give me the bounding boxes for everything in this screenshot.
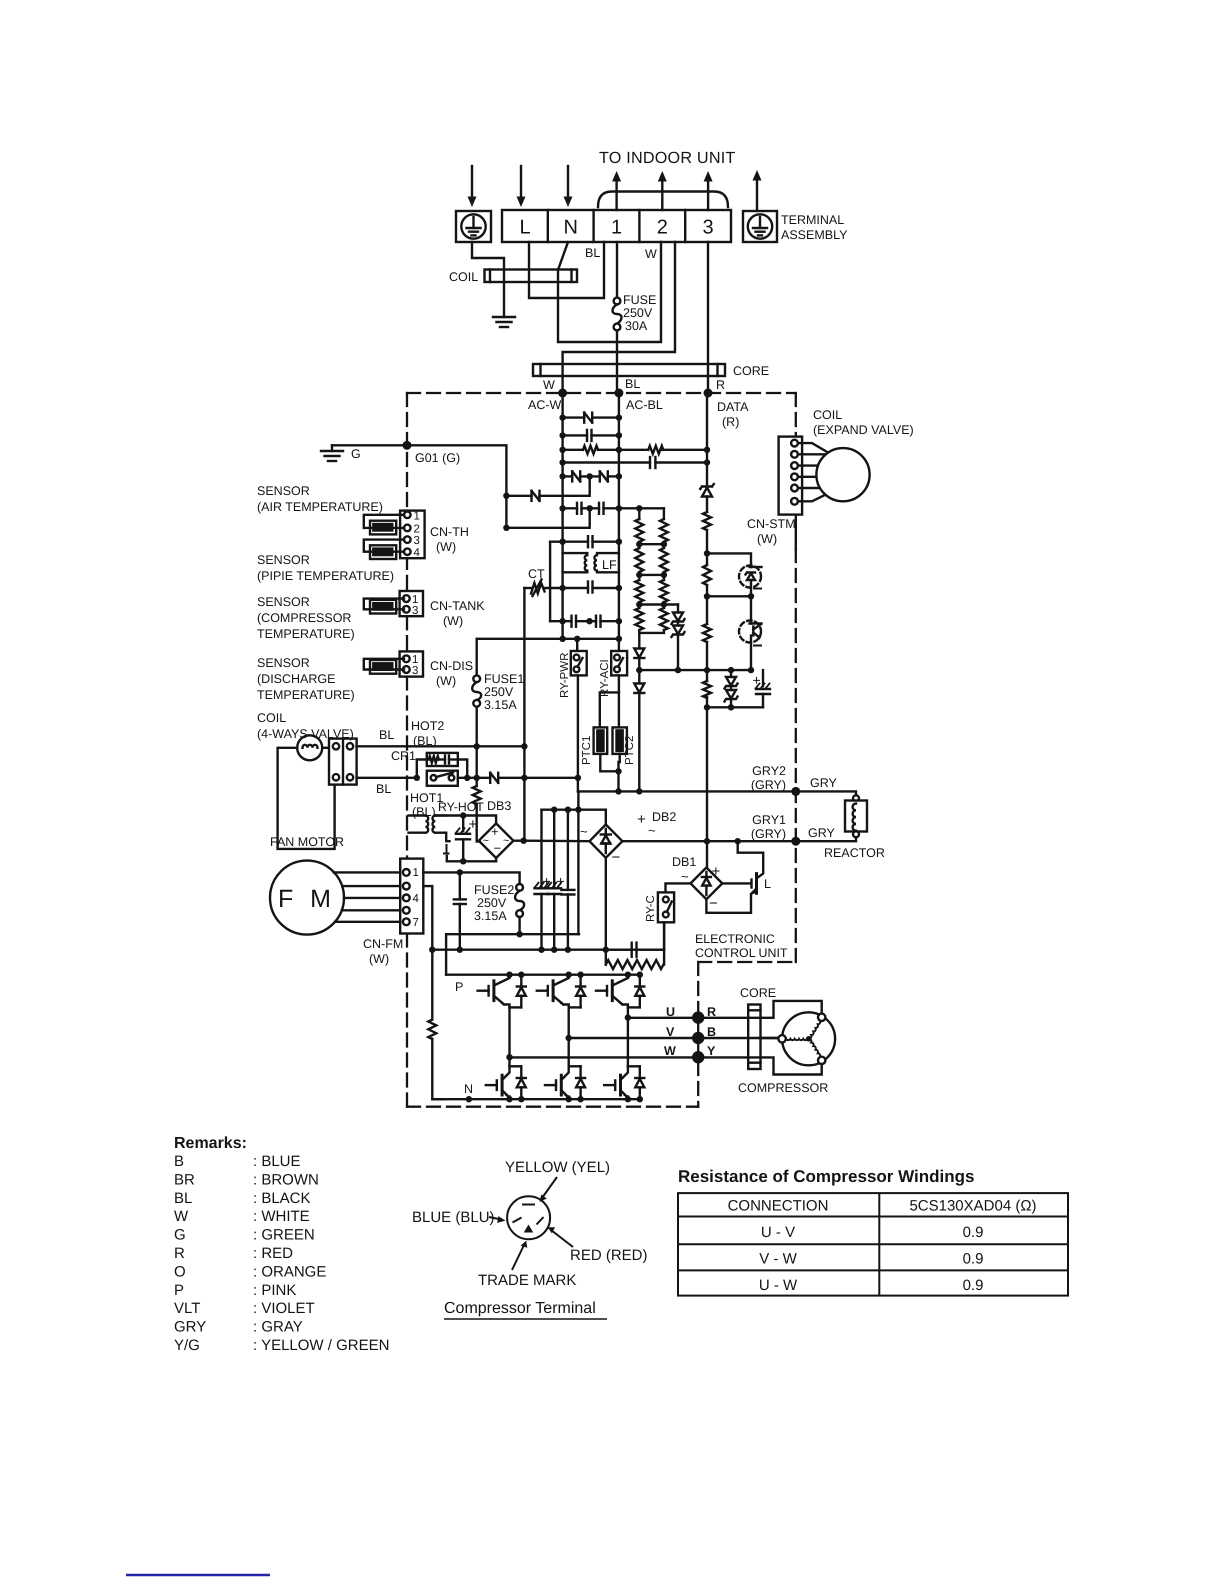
ladder rungs xyxy=(639,543,664,545)
svg-text:−: − xyxy=(494,841,502,856)
svg-text:CN-STM: CN-STM xyxy=(747,517,796,531)
diode upper 1 xyxy=(510,975,526,1008)
svg-text:(AIR TEMPERATURE): (AIR TEMPERATURE) xyxy=(257,500,383,514)
svg-text:SENSOR: SENSOR xyxy=(257,595,310,609)
row double capacitor below CT xyxy=(550,616,619,627)
svg-text:: ORANGE: : ORANGE xyxy=(253,1263,326,1280)
svg-text:GRY: GRY xyxy=(174,1319,206,1336)
reactor xyxy=(796,791,867,841)
electrolytic capacitor DB3 xyxy=(456,816,471,862)
fuse 250V 30A on wire 1 xyxy=(613,242,622,393)
svg-text:7: 7 xyxy=(413,917,419,929)
electrolytic capacitor bank 2 xyxy=(547,810,561,950)
phase column U xyxy=(627,1007,629,1066)
fuse FUSE1 column xyxy=(472,639,481,778)
CT current transformer xyxy=(524,580,588,597)
svg-text:TEMPERATURE): TEMPERATURE) xyxy=(257,688,355,702)
rail N xyxy=(432,1098,641,1100)
table resistance of compressor windings xyxy=(678,1193,1068,1296)
rail FUSE2 bottom to P xyxy=(446,934,579,975)
svg-text:ELECTRONIC: ELECTRONIC xyxy=(695,932,775,946)
phase column V xyxy=(568,1007,570,1066)
diode below ladder xyxy=(634,649,644,671)
phase column W xyxy=(508,1007,510,1066)
arrow into ground-left xyxy=(468,166,477,207)
IGBT lower 2 xyxy=(545,1066,569,1099)
svg-text:R: R xyxy=(716,378,725,392)
zener pair column xyxy=(672,605,685,671)
compressor motor xyxy=(778,1012,835,1065)
wire GRY1 rail xyxy=(622,840,795,842)
connector CN-STM xyxy=(779,437,803,515)
row capacitor line-filter bottom xyxy=(588,582,619,593)
ground terminal box right xyxy=(743,211,777,242)
resistor ladder left chain xyxy=(635,508,643,648)
capacitor bank 3 xyxy=(561,810,574,950)
svg-text:Resistance of Compressor Windi: Resistance of Compressor Windings xyxy=(678,1167,974,1186)
svg-text:(BL): (BL) xyxy=(412,805,436,819)
ground G outside board xyxy=(321,445,407,461)
wire core to motor Y xyxy=(698,1057,822,1074)
svg-text:250V: 250V xyxy=(477,896,507,910)
svg-text:(W): (W) xyxy=(436,674,456,688)
svg-text:FUSE2: FUSE2 xyxy=(474,883,514,897)
svg-text:3.15A: 3.15A xyxy=(484,698,517,712)
svg-text:2: 2 xyxy=(657,217,668,239)
svg-text:ASSEMBLY: ASSEMBLY xyxy=(781,228,848,242)
svg-text:CONTROL UNIT: CONTROL UNIT xyxy=(695,946,788,960)
junction dots middle rows xyxy=(503,414,754,710)
bridge rectifier DB3 xyxy=(477,823,524,861)
svg-text:+: + xyxy=(637,811,646,828)
junction dots power section xyxy=(414,743,801,953)
wire HOT2 xyxy=(357,745,525,747)
svg-text:COMPRESSOR: COMPRESSOR xyxy=(738,1081,828,1095)
svg-text:−: − xyxy=(612,849,621,866)
relay RY-ACI xyxy=(611,651,627,692)
svg-text:Y/G: Y/G xyxy=(174,1337,200,1354)
arrow out of ground-right xyxy=(753,170,762,211)
resistor on FUSE1 column xyxy=(473,778,481,842)
svg-text:: BROWN: : BROWN xyxy=(253,1171,319,1188)
svg-text:PTC2: PTC2 xyxy=(624,736,636,765)
blue rule bottom left xyxy=(126,1574,270,1576)
svg-text:R: R xyxy=(174,1245,185,1262)
wire DB2 negative column xyxy=(605,858,607,950)
coil expand valve xyxy=(798,443,870,501)
svg-text:G: G xyxy=(351,447,361,461)
core (line filter) rectangle xyxy=(533,364,725,376)
phase wire V xyxy=(569,1037,779,1039)
connector CN-TH xyxy=(400,511,425,559)
svg-text:CN-FM: CN-FM xyxy=(363,937,403,951)
svg-text:+: + xyxy=(557,873,565,889)
svg-text:: PINK: : PINK xyxy=(253,1282,296,1299)
svg-text:COIL: COIL xyxy=(449,270,478,284)
LF line filter coils xyxy=(563,553,619,572)
svg-text:: BLUE: : BLUE xyxy=(253,1153,301,1170)
svg-text:(W): (W) xyxy=(436,540,456,554)
svg-text:CT: CT xyxy=(528,567,545,581)
PTC1 xyxy=(594,692,619,771)
svg-text:: GRAY: : GRAY xyxy=(253,1319,303,1336)
diode upper 2 xyxy=(569,975,585,1008)
svg-text:CN-DIS: CN-DIS xyxy=(430,659,473,673)
svg-text:~: ~ xyxy=(681,869,689,884)
svg-text:3: 3 xyxy=(703,217,714,239)
wire terminal 3 down (R) xyxy=(707,242,709,393)
wire relay feed row xyxy=(477,638,619,640)
resistor ladder right chain xyxy=(660,508,668,633)
electrolytic capacitor bank 1 xyxy=(535,810,549,950)
row double capacitor W-BL-ladder xyxy=(563,503,664,514)
IGBT lower 1 xyxy=(486,1066,510,1099)
thermistor pipe temperature xyxy=(364,540,404,559)
ground terminal box left xyxy=(456,211,491,242)
svg-text:RY-HOT: RY-HOT xyxy=(438,800,484,814)
rail negative xyxy=(432,949,664,951)
svg-text:CORE: CORE xyxy=(733,364,769,378)
svg-text:AC-W: AC-W xyxy=(528,398,562,412)
svg-text:V - W: V - W xyxy=(759,1251,797,1268)
electrolytic capacitor node xyxy=(756,670,771,707)
bridge rectifier DB2 xyxy=(590,825,623,858)
svg-text:250V: 250V xyxy=(623,306,653,320)
svg-text:COIL: COIL xyxy=(257,711,286,725)
varistor on G01 branch xyxy=(506,476,589,500)
svg-text:RY-ACI: RY-ACI xyxy=(599,659,611,697)
capacitor on pin1 branch xyxy=(454,872,466,949)
svg-text:SENSOR: SENSOR xyxy=(257,553,310,567)
connector CN-FM xyxy=(400,859,423,934)
svg-text:(EXPAND VALVE): (EXPAND VALVE) xyxy=(813,423,914,437)
IGBT upper 1 xyxy=(478,975,510,1008)
svg-text:4: 4 xyxy=(414,547,421,559)
svg-text:(COMPRESSOR: (COMPRESSOR xyxy=(257,611,351,625)
diode lower 2 xyxy=(569,1066,585,1099)
wire G01 into board xyxy=(407,445,506,528)
svg-text:DB1: DB1 xyxy=(672,855,696,869)
svg-text:: WHITE: : WHITE xyxy=(253,1208,310,1225)
svg-text:FUSE1: FUSE1 xyxy=(484,672,524,686)
bottom rail DB3 xyxy=(447,860,496,862)
relay CR1 snubber xyxy=(417,753,467,778)
DB2 capacitor bank bus xyxy=(542,810,606,825)
svg-text:REACTOR: REACTOR xyxy=(824,846,885,860)
row capacitor W-BL xyxy=(563,430,619,441)
svg-text:BL: BL xyxy=(376,782,391,796)
svg-text:PTC1: PTC1 xyxy=(581,736,593,765)
svg-text:GRY2: GRY2 xyxy=(752,764,786,778)
relay CR1 contact xyxy=(427,771,458,786)
varistor on HOT1 row xyxy=(490,773,578,783)
svg-text:0.9: 0.9 xyxy=(963,1277,984,1294)
legend color codes xyxy=(174,1153,389,1354)
svg-text:FUSE: FUSE xyxy=(623,293,656,307)
relay RY-HOT coil xyxy=(409,816,450,862)
svg-text:+: + xyxy=(543,873,551,889)
phase wire U xyxy=(628,1017,698,1019)
wire HOT1 row xyxy=(357,777,417,779)
W bus AC-W xyxy=(561,393,563,639)
svg-text:+: + xyxy=(753,672,761,688)
svg-text:~: ~ xyxy=(503,835,509,847)
wire N loop to terminal 2 xyxy=(558,242,661,342)
svg-text:F M: F M xyxy=(278,885,336,913)
wire pin2 to negative rail xyxy=(423,886,432,950)
svg-text:TRADE MARK: TRADE MARK xyxy=(478,1272,576,1289)
relay RY-C xyxy=(658,883,691,949)
svg-text:G01 (G): G01 (G) xyxy=(415,451,460,465)
photocoupler lower xyxy=(707,596,762,670)
resistor to N rail xyxy=(428,950,444,1099)
svg-text:3: 3 xyxy=(414,535,420,547)
fuse FUSE2 xyxy=(515,884,524,934)
connector CN-TANK xyxy=(400,591,423,616)
svg-text:3: 3 xyxy=(412,605,418,617)
junction dots inverter xyxy=(403,389,713,1103)
svg-text:N: N xyxy=(563,217,577,239)
svg-text:1: 1 xyxy=(611,217,622,239)
svg-text:: YELLOW / GREEN: : YELLOW / GREEN xyxy=(253,1337,389,1354)
thermistor compressor temperature xyxy=(364,599,404,614)
svg-text:LF: LF xyxy=(602,558,617,572)
svg-text:+: + xyxy=(712,863,721,880)
compressor terminal diagram xyxy=(489,1177,573,1270)
svg-text:B: B xyxy=(174,1153,184,1170)
svg-text:U - W: U - W xyxy=(759,1277,798,1294)
arrow out of 1 xyxy=(612,171,621,210)
rail P xyxy=(446,974,641,976)
zener pair to node xyxy=(725,670,738,707)
svg-text:GRY: GRY xyxy=(808,826,836,840)
svg-text:TEMPERATURE): TEMPERATURE) xyxy=(257,627,355,641)
svg-text:COIL: COIL xyxy=(813,408,842,422)
svg-text:DATA: DATA xyxy=(717,400,749,414)
svg-text:BL: BL xyxy=(585,246,600,260)
svg-text:30A: 30A xyxy=(625,319,648,333)
connector CN-DIS xyxy=(400,651,423,676)
vertical CT feed xyxy=(523,588,525,841)
diode to GRY2 xyxy=(634,670,644,791)
terminal block L N 1 2 3 xyxy=(502,210,731,242)
coil 4-ways valve xyxy=(278,735,335,849)
svg-text:2: 2 xyxy=(414,524,420,536)
IGBT upper 3 xyxy=(596,975,628,1008)
svg-text:: RED: : RED xyxy=(253,1245,293,1262)
svg-text:Remarks:: Remarks: xyxy=(174,1135,247,1152)
svg-text:~: ~ xyxy=(648,823,656,838)
arrow out of 2 xyxy=(658,171,667,210)
wire RY-HOT top rail xyxy=(435,816,496,824)
svg-text:+: + xyxy=(469,816,478,833)
svg-text:250V: 250V xyxy=(484,685,514,699)
svg-text:1: 1 xyxy=(414,511,420,523)
svg-text:4: 4 xyxy=(413,893,420,905)
arrow into N xyxy=(564,166,573,207)
relay RY-PWR xyxy=(571,639,587,792)
svg-text:: GREEN: : GREEN xyxy=(253,1227,315,1244)
svg-text:CR1: CR1 xyxy=(391,749,416,763)
wire core to motor R xyxy=(698,1001,822,1018)
snubber RC network xyxy=(606,922,664,969)
svg-text:Compressor Terminal: Compressor Terminal xyxy=(444,1300,596,1317)
thermistor air temperature xyxy=(364,515,404,535)
wire terminal 2 to W bus xyxy=(563,242,675,393)
svg-text:1: 1 xyxy=(413,867,419,879)
wire CN-STM common xyxy=(795,515,797,549)
svg-text:P: P xyxy=(455,980,463,994)
row double varistor W-BL xyxy=(563,471,619,481)
svg-text:0.9: 0.9 xyxy=(963,1251,984,1268)
svg-text:: VIOLET: : VIOLET xyxy=(253,1300,315,1317)
svg-text:(BL): (BL) xyxy=(413,734,437,748)
svg-text:BL: BL xyxy=(174,1190,192,1207)
svg-text:(PIPIE TEMPERATURE): (PIPIE TEMPERATURE) xyxy=(257,569,394,583)
svg-text:BLUE (BLU): BLUE (BLU) xyxy=(412,1209,495,1226)
svg-text:(W): (W) xyxy=(757,532,777,546)
arrow out of 3 xyxy=(704,171,713,210)
svg-text:FAN MOTOR: FAN MOTOR xyxy=(270,835,344,849)
svg-text:3.15A: 3.15A xyxy=(474,909,507,923)
wire RY-PWR column to FUSE2 rail xyxy=(577,791,579,934)
earth ground symbol under coil xyxy=(493,317,515,327)
svg-text:CORE: CORE xyxy=(740,986,776,1000)
IGBT lower 3 xyxy=(604,1066,628,1099)
connector coil 4-ways valve xyxy=(329,739,357,785)
row resistors W-BL-R xyxy=(563,446,707,454)
wire L loop to terminal 1 xyxy=(529,242,604,298)
svg-text:P: P xyxy=(174,1282,184,1299)
IGBT upper 2 xyxy=(537,975,569,1008)
coil (ferrite core) on mains wires xyxy=(485,270,578,283)
svg-text:YELLOW (YEL): YELLOW (YEL) xyxy=(505,1159,610,1176)
wire DB3-DB2 rail xyxy=(524,840,590,843)
bracket arc over wires 1-3 xyxy=(598,192,728,208)
svg-text:RY-PWR: RY-PWR xyxy=(559,653,571,698)
svg-text:(DISCHARGE: (DISCHARGE xyxy=(257,672,335,686)
svg-text:SENSOR: SENSOR xyxy=(257,484,310,498)
svg-text:L: L xyxy=(519,217,530,239)
photocoupler upper xyxy=(707,553,762,596)
svg-text:GRY1: GRY1 xyxy=(752,813,786,827)
svg-text:(R): (R) xyxy=(722,415,739,429)
svg-text:B: B xyxy=(707,1025,716,1039)
wire core to motor B xyxy=(760,1037,779,1039)
svg-text:−: − xyxy=(709,895,718,912)
svg-text:HOT2: HOT2 xyxy=(411,719,444,733)
svg-text:U - V: U - V xyxy=(761,1224,795,1241)
svg-text:TERMINAL: TERMINAL xyxy=(781,213,844,227)
svg-text:BR: BR xyxy=(174,1171,195,1188)
horizontal node line lower xyxy=(707,706,763,708)
svg-text:(GRY): (GRY) xyxy=(751,778,786,792)
svg-text:V: V xyxy=(666,1025,675,1039)
electronic control unit dashed boundary xyxy=(407,393,796,1107)
wire pin1 to FUSE2 xyxy=(423,872,519,884)
svg-text:BL: BL xyxy=(625,377,640,391)
svg-text:(4-WAYS VALVE): (4-WAYS VALVE) xyxy=(257,727,354,741)
arrow into L xyxy=(517,166,526,207)
svg-text:W: W xyxy=(645,247,657,261)
svg-text:(GRY): (GRY) xyxy=(751,827,786,841)
diode upper 3 xyxy=(628,975,644,1008)
svg-text:: BLACK: : BLACK xyxy=(253,1190,311,1207)
svg-text:W: W xyxy=(664,1044,676,1058)
diode lower 3 xyxy=(628,1066,644,1099)
svg-text:5CS130XAD04 (Ω): 5CS130XAD04 (Ω) xyxy=(909,1198,1036,1215)
row capacitor line-filter top xyxy=(550,536,619,621)
svg-text:W: W xyxy=(174,1208,189,1225)
svg-text:DB2: DB2 xyxy=(652,810,676,824)
wire ground-left to earth xyxy=(472,242,504,317)
svg-text:AC-BL: AC-BL xyxy=(626,398,663,412)
svg-text:VLT: VLT xyxy=(174,1300,200,1317)
svg-text:3: 3 xyxy=(412,665,418,677)
R bus DATA xyxy=(700,393,714,868)
wire GRY2 xyxy=(578,790,796,792)
bridge rectifier DB1 xyxy=(691,868,723,900)
svg-text:CN-TANK: CN-TANK xyxy=(430,599,485,613)
svg-text:BL: BL xyxy=(379,728,394,742)
wire G01 branch to capacitor row xyxy=(506,508,589,528)
wire HOT1 row right xyxy=(458,777,490,779)
svg-text:L: L xyxy=(764,877,771,891)
thermistor discharge temperature xyxy=(364,659,404,674)
BL bus AC-BL xyxy=(618,393,620,651)
svg-text:(W): (W) xyxy=(443,614,463,628)
svg-text:~: ~ xyxy=(483,835,489,847)
svg-text:R: R xyxy=(707,1005,716,1019)
row varistor W-BL xyxy=(563,413,619,423)
svg-text:(W): (W) xyxy=(369,952,389,966)
svg-text:CN-TH: CN-TH xyxy=(430,525,469,539)
svg-text:Y: Y xyxy=(707,1044,716,1058)
svg-text:CONNECTION: CONNECTION xyxy=(728,1198,829,1215)
svg-text:+: + xyxy=(491,824,499,839)
fan motor FM xyxy=(270,861,400,935)
core compressor xyxy=(748,1005,760,1070)
PTC2 xyxy=(613,692,627,791)
svg-text:~: ~ xyxy=(580,824,588,839)
row capacitor W-R xyxy=(563,457,707,468)
diode lower 1 xyxy=(510,1066,526,1099)
svg-text:0.9: 0.9 xyxy=(963,1224,984,1241)
svg-text:RY-C: RY-C xyxy=(645,895,657,922)
svg-text:W: W xyxy=(543,378,555,392)
svg-text:U: U xyxy=(666,1005,675,1019)
legend and table section xyxy=(126,1135,1068,1575)
svg-text:RED (RED): RED (RED) xyxy=(570,1247,648,1264)
svg-text:G: G xyxy=(174,1227,186,1244)
svg-text:DB3: DB3 xyxy=(487,799,511,813)
transistor L xyxy=(706,841,763,913)
svg-text:N: N xyxy=(464,1082,473,1096)
svg-text:O: O xyxy=(174,1263,186,1280)
svg-text:SENSOR: SENSOR xyxy=(257,656,310,670)
phase wire W xyxy=(510,1056,699,1058)
svg-text:GRY: GRY xyxy=(810,776,838,790)
svg-text:TO INDOOR UNIT: TO INDOOR UNIT xyxy=(599,149,736,167)
horizontal node line upper xyxy=(639,669,751,671)
